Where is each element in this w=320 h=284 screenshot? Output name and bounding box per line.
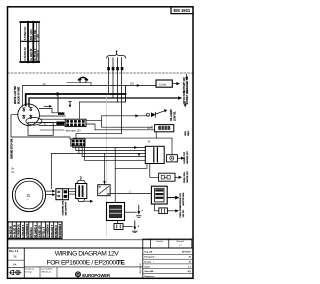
wire switch to connector row1: [39, 109, 58, 113]
svg-text:12V: 12V: [130, 81, 135, 85]
connector block X2: [71, 139, 85, 146]
line under title: [24, 266, 143, 268]
node riser x101.6: [101, 116, 103, 127]
ignition switch S1: [18, 104, 40, 126]
bundle wire 4 long vertical: [121, 58, 123, 134]
wires switch to connector grid: [40, 118, 65, 120]
svg-text:FOR EP16000E / EP20000: FOR EP16000E / EP20000: [47, 260, 120, 267]
title block top line: [8, 247, 194, 249]
down arrow top right: [186, 74, 188, 77]
svg-text:~: ~: [27, 198, 29, 202]
bundle wire 3: [117, 58, 119, 102]
battery ground arrow: [85, 200, 91, 202]
wire from switch bottom right: [40, 129, 64, 131]
dropper x104.5 to relay: [104, 154, 106, 185]
svg-text:Replaces :: Replaces :: [144, 276, 155, 278]
svg-text:30 RED 12V: 30 RED 12V: [39, 225, 41, 238]
svg-text:20A OUTPUT: 20A OUTPUT: [64, 201, 67, 215]
svg-text:B+ RED 30: B+ RED 30: [10, 225, 12, 237]
svg-text:31 BLACK 7: 31 BLACK 7: [51, 224, 54, 238]
generator G: [12, 178, 45, 211]
wire loop rectangle below switch: [28, 123, 53, 136]
svg-text:B+ RED 30: B+ RED 30: [30, 48, 33, 61]
connector blade top: [58, 112, 64, 114]
europower logo: [75, 271, 81, 277]
switch terminals: [23, 108, 33, 119]
svg-text:S.START AC: S.START AC: [24, 26, 27, 40]
pilot lamp box: [167, 155, 178, 162]
first angle projection symbol: [9, 270, 21, 275]
svg-text:FUEL PUMP: FUEL PUMP: [180, 204, 182, 217]
svg-text:REG: REG: [188, 131, 190, 136]
wire generator charge to bus: [51, 154, 53, 189]
svg-text:WIRING DIAGRAM 12V: WIRING DIAGRAM 12V: [55, 251, 120, 258]
svg-text:16: 16: [13, 255, 17, 259]
svg-text:1996-05-14: 1996-05-14: [41, 272, 51, 274]
fuse F1: [159, 173, 175, 181]
left margin rotated label engine stop: [11, 138, 13, 159]
wire cluster bottom left: [115, 164, 147, 169]
arrow down to connector: [69, 101, 71, 105]
switch key oval: [26, 118, 42, 126]
fuse F3 under starter: [117, 221, 119, 224]
svg-text:86 BROWN 9: 86 BROWN 9: [60, 223, 62, 238]
svg-text:BLACK 0V GND: BLACK 0V GND: [17, 86, 20, 104]
starter relay K2: [98, 185, 110, 196]
svg-text:N BLUE 3: N BLUE 3: [31, 227, 33, 238]
relay output wire: [110, 193, 151, 195]
wire X1 to regulator bus: [86, 124, 95, 130]
wire grid X1 to node: [86, 120, 102, 122]
dashed separator line: [8, 72, 194, 74]
terminal strip rotated texts: [10, 223, 62, 238]
bus y133.4: [76, 133, 122, 139]
ground symbol G1: [138, 205, 140, 211]
svg-text:BAT. 12V=: BAT. 12V=: [30, 28, 33, 40]
svg-text:L1 BLACK 1: L1 BLACK 1: [22, 224, 25, 238]
svg-text:x2: x2: [43, 82, 46, 86]
bus y98 with output arrow: [29, 98, 179, 107]
svg-text:WHITE +12V SW: WHITE +12V SW: [15, 85, 17, 104]
svg-text:Drawn :: Drawn :: [144, 262, 153, 264]
svg-text:C.START AC: C.START AC: [24, 47, 27, 61]
relay cluster K1: [145, 146, 164, 163]
battery feed stubs: [69, 188, 76, 190]
svg-text:OIL ALERT: OIL ALERT: [170, 109, 173, 121]
rotated labels battery charger: [183, 76, 189, 93]
bus y129.8 into regulator: [95, 129, 155, 131]
bundle wire 1: [108, 58, 110, 94]
scan crease (faint): [105, 96, 107, 236]
svg-text:L2 BROWN 2: L2 BROWN 2: [27, 223, 29, 238]
svg-text:Drg. A4 :: Drg. A4 :: [144, 251, 154, 254]
flow arrow on bus y115.8: [135, 114, 138, 117]
svg-text:12V DC: 12V DC: [183, 209, 185, 217]
dropper x58 from thick bus: [57, 93, 59, 113]
legend table rotated cell texts: [24, 26, 40, 61]
flow arrow on bus y85.5: [137, 84, 140, 87]
svg-text:HOUR CNT: HOUR CNT: [184, 151, 186, 163]
rotated labels under plug: [61, 200, 67, 216]
svg-text:TE: TE: [117, 260, 126, 267]
svg-text:FUEL SOL.: FUEL SOL.: [184, 171, 186, 183]
svg-text:D+ BLUE 15: D+ BLUE 15: [15, 224, 17, 238]
rotated labels oil alert: [170, 109, 176, 121]
wire cluster to fuse F1: [150, 164, 159, 178]
underline below strip: [8, 239, 192, 241]
arrow from pilot lamp: [177, 157, 181, 159]
svg-text:B. Veys: B. Veys: [25, 272, 31, 274]
svg-text:CHOKE 12V: CHOKE 12V: [180, 193, 182, 206]
svg-text:EM 1501: EM 1501: [174, 8, 191, 13]
svg-text:LOW OIL: LOW OIL: [174, 111, 176, 121]
wire switch left loop: [11, 115, 70, 139]
svg-text:AVR: AVR: [184, 131, 187, 136]
svg-text:Design by: Design by: [25, 269, 33, 271]
svg-text:Gewicht: Gewicht: [156, 240, 163, 243]
generator plug arrows: [46, 190, 53, 192]
svg-text:E GRN 31: E GRN 31: [37, 49, 40, 61]
left margin rotated wire labels: [15, 85, 20, 104]
svg-text:12V: 12V: [37, 34, 40, 39]
staircase wires X2 to relay cluster: [73, 146, 146, 148]
svg-text:A4: A4: [13, 263, 17, 267]
terminal strip TB1: [8, 222, 62, 239]
dropper x79.5: [79, 102, 81, 119]
brace tick: [116, 51, 118, 53]
bundle wire 2: [112, 58, 114, 98]
svg-text:1:2: 1:2: [179, 245, 182, 247]
dropper x115.2 to starter: [114, 148, 116, 203]
connector blade left: [56, 122, 64, 125]
svg-text:Rev. 2.0: Rev. 2.0: [9, 250, 19, 253]
bus wire y85.5: [23, 86, 157, 106]
harness brace: [107, 54, 126, 58]
svg-text:15 GREEN 6: 15 GREEN 6: [48, 224, 50, 238]
svg-text:Scale :: Scale :: [144, 266, 153, 268]
rotated labels 12v output: [184, 90, 189, 105]
breaker symbol on stub: [67, 82, 91, 84]
svg-text:EP15001: EP15001: [182, 252, 192, 254]
svg-text:PE GN/YE 4: PE GN/YE 4: [34, 224, 37, 237]
title block header boxes: [142, 239, 144, 279]
designer cells: [39, 267, 41, 279]
svg-text:Sheet/Bl. :: Sheet/Bl. :: [144, 270, 155, 273]
svg-text:CAD EM1501: CAD EM1501: [139, 263, 142, 274]
connector block X1: [65, 119, 86, 126]
svg-text:Designed :: Designed :: [144, 257, 155, 259]
fuel pump box: [151, 186, 167, 204]
drawing number box top right: [171, 7, 193, 14]
arrow right of switch: [44, 105, 50, 107]
regulator side label: [184, 131, 190, 136]
svg-text:alternator 12V: alternator 12V: [66, 129, 81, 132]
wire labels on bundle: [107, 67, 123, 70]
diode D1 with indicator: [147, 113, 150, 116]
battery B1: [76, 184, 87, 199]
svg-text:METER 12V: METER 12V: [187, 151, 189, 164]
starter motor M1: [107, 203, 125, 221]
regulator box with hatched element: [155, 125, 174, 132]
svg-text:BATTERY 12V: BATTERY 12V: [183, 77, 186, 92]
fuse F2 under pump: [155, 204, 159, 211]
title block left column: [23, 248, 25, 279]
svg-text:SOCKET 10A: SOCKET 10A: [186, 90, 189, 105]
svg-text:E GREEN 31: E GREEN 31: [19, 224, 21, 238]
bus y138.1: [73, 137, 172, 140]
charger box 12V: [156, 80, 172, 87]
title block right rows: [143, 254, 193, 273]
svg-text:CHARGE COIL: CHARGE COIL: [61, 200, 64, 216]
wire rung y116: [40, 115, 65, 117]
rotated tiny text left of table: [139, 263, 142, 274]
small down arrow right edge: [184, 102, 186, 105]
flow arrow on bus y94: [57, 92, 61, 96]
svg-text:85 WHITE 8: 85 WHITE 8: [56, 225, 58, 238]
regulator drop wires: [155, 132, 157, 138]
svg-text:Maatstaf: Maatstaf: [177, 240, 185, 243]
svg-text:50 YELL 5: 50 YELL 5: [44, 226, 46, 238]
corner riser x125.5: [125, 86, 127, 103]
bus y115.8 to diode: [102, 115, 149, 117]
thick bus y94: [26, 94, 126, 106]
starter output wire: [125, 211, 137, 213]
svg-text:4(-): 4(-): [188, 270, 192, 273]
svg-text:VALVE 12V: VALVE 12V: [186, 171, 189, 183]
border frame: [8, 7, 194, 279]
generator connector plug: [56, 189, 69, 200]
bus y127.2: [102, 126, 152, 128]
wire colour legend table: [20, 22, 39, 63]
svg-text:ENGINE STOP SW.: ENGINE STOP SW.: [11, 138, 13, 159]
svg-text:Last modified: Last modified: [41, 268, 52, 271]
ground symbol G2: [134, 221, 136, 227]
svg-text:MOTOR SOL: MOTOR SOL: [183, 192, 185, 206]
bus y102: [80, 101, 126, 103]
svg-text:12Vdc: 12Vdc: [159, 82, 167, 86]
svg-text:EUROPOWER: EUROPOWER: [82, 273, 111, 278]
